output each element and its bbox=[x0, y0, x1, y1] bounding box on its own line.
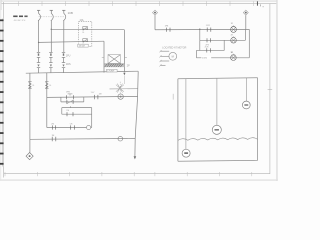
svg-text:2CR: 2CR bbox=[205, 47, 209, 49]
svg-text:OL: OL bbox=[49, 85, 51, 87]
svg-text:1FU: 1FU bbox=[66, 54, 71, 57]
svg-text:1DS: 1DS bbox=[66, 63, 71, 66]
svg-text:OL: OL bbox=[82, 32, 84, 34]
svg-text:2M: 2M bbox=[51, 123, 54, 125]
svg-text:1M: 1M bbox=[66, 110, 69, 112]
svg-text:1 PUMP: 1 PUMP bbox=[107, 71, 115, 73]
svg-text:LOCATED AT MOTOR: LOCATED AT MOTOR bbox=[162, 46, 186, 49]
svg-text:1M 2M: 1M 2M bbox=[79, 46, 85, 48]
svg-text:1OL: 1OL bbox=[80, 20, 85, 22]
svg-text:M: M bbox=[172, 54, 174, 58]
svg-text:1CB: 1CB bbox=[68, 11, 73, 15]
svg-text:2CR2: 2CR2 bbox=[202, 58, 208, 60]
svg-text:1M: 1M bbox=[52, 135, 55, 137]
svg-text:OL: OL bbox=[32, 85, 34, 87]
svg-text:1SV: 1SV bbox=[91, 92, 95, 94]
svg-text:1PB: 1PB bbox=[66, 92, 70, 94]
svg-text:1M: 1M bbox=[99, 94, 102, 96]
svg-text:2P: 2P bbox=[127, 65, 130, 67]
svg-text:1CR: 1CR bbox=[206, 25, 211, 27]
svg-text:480 VAC 3PH: 480 VAC 3PH bbox=[14, 19, 26, 22]
